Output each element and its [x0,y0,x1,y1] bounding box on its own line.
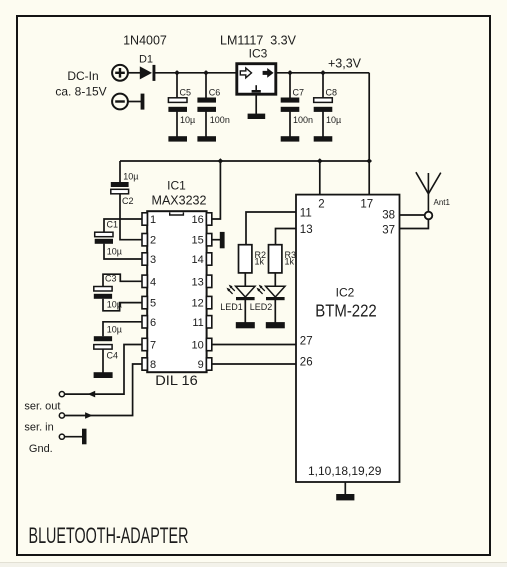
bottom window strip [0,562,507,567]
svg-text:27: 27 [300,336,313,348]
wire IC1 pin8 to ser.in [64,364,142,416]
IC1 pin 4 box [142,275,147,287]
svg-text:IC3: IC3 [249,47,268,61]
capacitor C6 (100n) [197,98,216,112]
wire DC- to ground bar [128,101,141,103]
LED1 [227,285,256,301]
IC1 pin 1 box [142,213,147,225]
svg-text:38: 38 [382,210,395,222]
svg-text:IC2: IC2 [336,286,355,300]
wire bus corner down to C2 [119,161,121,183]
junction node at C7 tap [287,70,293,75]
junction node at C6 tap [203,70,209,75]
terminal DC-In plus [112,65,128,81]
ground below LED2 [266,322,285,328]
IC1 pin 14 box [206,253,211,265]
junction node at C5 tap [174,70,180,75]
svg-text:10µ: 10µ [107,247,122,257]
svg-text:26: 26 [300,357,313,369]
svg-text:13: 13 [192,276,204,288]
svg-text:10µ: 10µ [326,115,341,125]
terminal ser. in [59,413,64,418]
capacitor C2 (10u electrolytic) [111,182,129,194]
svg-text:C8: C8 [326,87,338,97]
wire IC1 pin10 to IC2 pin27 [211,344,296,346]
svg-text:LED2: LED2 [250,302,273,312]
IC1 pin 13 box [206,275,211,287]
svg-text:D1: D1 [139,54,153,66]
svg-text:100n: 100n [210,115,230,125]
wire IC1 pin7 to ser.out [64,345,142,395]
capacitor C5 (10u electrolytic) [168,98,187,112]
wire C5 top [176,73,178,98]
IC1 notch [170,212,184,215]
IC1 pin 5 box [142,296,147,308]
junction node bus / IC2 pin2 [317,158,323,163]
arrow on ser. in wire [85,412,93,419]
svg-text:LM1117 3.3V: LM1117 3.3V [220,34,297,48]
wire C6 top [205,73,207,98]
svg-text:100n: 100n [293,115,313,125]
svg-text:Ant1: Ant1 [434,198,451,207]
svg-text:1: 1 [150,214,156,226]
wire IC1 pin6 to C4 top [103,322,142,337]
diode D1 [140,65,156,81]
svg-text:5: 5 [150,298,156,310]
junction node at C8 tap [320,70,326,75]
svg-text:DC-In: DC-In [67,69,98,83]
wire IC1 pin4 to C3 top [103,274,142,286]
svg-text:9: 9 [198,359,204,371]
svg-text:BLUETOOTH-ADAPTER: BLUETOOTH-ADAPTER [29,523,189,548]
IC1 pin 15 box [206,234,211,246]
wire IC1 pin9 to IC2 pin26 [211,363,296,365]
wire IC3 output to +3.3V rail corner [277,72,369,74]
wire D1 cathode to IC3 input [155,72,236,74]
svg-text:1,10,18,19,29: 1,10,18,19,29 [308,464,382,478]
wire LED1 to ground [244,298,246,323]
wire IC1 pin1 to C1 top [104,219,142,232]
wire R2 to LED1 [244,273,246,286]
svg-text:C7: C7 [293,87,305,97]
svg-text:BTM-222: BTM-222 [315,300,377,320]
svg-text:2: 2 [150,235,156,247]
terminal ser. out [59,392,64,397]
wire C8 bottom to ground [322,112,324,138]
svg-text:13: 13 [300,224,313,236]
svg-text:C3: C3 [105,273,117,283]
IC1 pin 9 box [206,358,211,370]
op-amp IC1 MAX3232 body [147,211,206,372]
junction node bus / IC1 pin16 [218,158,224,163]
svg-text:11: 11 [300,208,312,220]
IC1 pin 8 box [142,358,147,370]
IC1 pin 7 box [142,338,147,350]
terminal Gnd [59,434,64,439]
svg-text:C4: C4 [107,350,119,360]
svg-text:Gnd.: Gnd. [29,443,53,455]
svg-text:LED1: LED1 [220,302,243,312]
IC1 pin 11 box [206,316,211,328]
junction node bus / +3.3V drop [366,158,372,163]
wire IC1 pin15 to ground bar [211,239,220,241]
wire C2 bottom to IC1 pin2 [120,194,142,240]
capacitor C1 (10u electrolytic) [95,232,113,244]
resistor R2 1k [239,245,252,273]
svg-text:3: 3 [150,254,156,266]
ground below LED1 [236,322,255,328]
ground below C8 [314,136,333,141]
svg-text:6: 6 [150,317,156,329]
IC1 pin 6 box [142,316,147,328]
voltage regulator IC3 LM1117 [237,64,276,94]
ground below C5 [168,136,187,141]
svg-text:10µ: 10µ [107,325,122,335]
svg-text:37: 37 [382,225,395,237]
svg-text:MAX3232: MAX3232 [152,194,207,208]
svg-text:IC1: IC1 [167,179,186,193]
wire IC2 pin37 to antenna [400,219,429,228]
wire IC2 pin38 to antenna [400,214,425,216]
IC2 BTM-222 body [296,195,400,482]
ground bar at DC-In minus [141,94,145,110]
svg-text:12: 12 [192,298,204,310]
svg-text:10µ: 10µ [180,115,195,125]
antenna Ant1 [416,172,441,219]
svg-text:C1: C1 [107,219,119,229]
IC1 pin 2 box [142,234,147,246]
svg-text:ca. 8-15V: ca. 8-15V [55,85,106,99]
svg-text:17: 17 [360,199,373,211]
svg-text:C6: C6 [209,87,221,97]
svg-text:1k: 1k [285,257,295,267]
svg-text:11: 11 [192,317,203,329]
wire IC2 pin13 to R3 [276,229,297,245]
svg-text:C2: C2 [122,196,134,206]
LED2 [257,285,286,301]
wire C1 bottom to IC1 pin3 [104,244,142,259]
wire C3 bottom to IC1 pin5 [103,299,142,311]
wire C6 bottom to ground [205,112,207,138]
svg-text:8: 8 [150,359,156,371]
svg-text:10: 10 [192,340,204,352]
ground below IC2 [336,494,354,500]
wire C7 top [289,73,291,98]
IC1 pin 10 box [206,338,211,350]
resistor R3 1k [269,245,282,273]
ground below C4 [94,372,113,378]
wire IC2 ground stem [344,482,346,494]
IC1 pin 16 box [206,213,211,225]
wire LED2 to ground [274,298,276,323]
svg-text:DIL 16: DIL 16 [155,372,198,388]
terminal DC-In minus [112,94,128,110]
wire IC3 tab to ground [255,96,257,115]
IC1 pin 3 box [142,253,147,265]
wire Gnd terminal to bar [64,436,82,438]
capacitor C8 (10u electrolytic) [314,98,333,112]
svg-text:ser. in: ser. in [24,421,53,433]
svg-text:10µ: 10µ [107,300,122,310]
svg-text:16: 16 [192,214,204,226]
svg-text:15: 15 [192,235,204,247]
arrow on ser. out wire [88,391,96,398]
ground bar at IC1 pin15 [220,232,225,248]
wire DC+ to D1 anode [128,72,141,74]
capacitor C4 (10u electrolytic) [94,336,112,349]
wire IC2 pin11 to R2 [246,212,296,245]
capacitor C3 (10u electrolytic) [94,287,112,299]
svg-text:10µ: 10µ [123,172,138,182]
svg-text:C5: C5 [180,87,192,97]
svg-text:1k: 1k [255,257,265,267]
wire C4 bottom to ground [102,349,104,373]
IC1 pin 12 box [206,296,211,308]
capacitor C7 (100n) [281,98,300,112]
svg-text:1N4007: 1N4007 [123,34,167,48]
wire IC2 pin2 drop [319,161,321,195]
ground below C6 [197,136,216,141]
wire 3.3V bus horizontal [120,160,369,162]
wire C8 top [322,73,324,98]
ground below IC3 [248,114,266,119]
wire R3 to LED2 [274,273,276,286]
svg-text:+3,3V: +3,3V [328,57,362,71]
wire IC2 pin17 drop [368,161,370,195]
svg-text:14: 14 [192,254,204,266]
wire C5 bottom to ground [176,112,178,138]
ground below C7 [281,136,300,141]
svg-text:4: 4 [150,276,156,288]
svg-text:2: 2 [318,199,324,211]
wire +3.3V rail drop to bus [368,73,370,161]
wire C7 bottom to ground [289,112,291,138]
ground bar at Gnd terminal [82,429,87,445]
svg-text:ser. out: ser. out [24,400,60,412]
wire IC1 pin16 to bus [211,161,221,219]
svg-text:7: 7 [150,340,156,352]
